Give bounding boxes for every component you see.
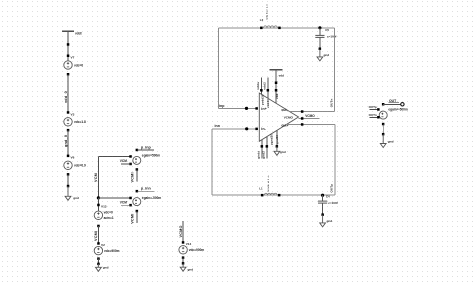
wire net inn <box>212 124 257 129</box>
op-amp internal bottom labels <box>270 134 280 145</box>
wire loop left edge inner <box>211 129 213 195</box>
pin of V3 bottom <box>67 129 70 132</box>
op-amp pin label in+ <box>261 107 266 111</box>
ground op-amp <box>274 146 286 155</box>
pin of V2 bottom <box>97 257 100 260</box>
svg-text:V2: V2 <box>101 243 105 247</box>
wire loop right edge bottom net OUTp <box>330 125 335 196</box>
pin E1 ctrl- <box>129 163 132 166</box>
svg-text:VCMI: VCMI <box>94 231 98 241</box>
svg-text:vdd: vdd <box>275 93 279 99</box>
junction <box>67 185 70 188</box>
wire <box>67 174 69 186</box>
wire net VCMO from apex <box>299 114 320 119</box>
voltage source V13 vdc=0 acm=1 <box>94 211 114 220</box>
svg-text:vdd20: vdd20 <box>266 99 270 108</box>
wire net p_inp <box>137 145 154 150</box>
ground <box>180 263 193 271</box>
svg-text:V3: V3 <box>71 112 75 116</box>
svg-text:pgnd20: pgnd20 <box>270 134 274 145</box>
ground <box>317 49 329 61</box>
svg-text:OUT: OUT <box>389 99 397 103</box>
voltage source V3 vdc=1.8 <box>64 118 86 126</box>
svg-text:V13: V13 <box>101 205 107 209</box>
ground <box>65 186 79 200</box>
pin of V14 bottom <box>182 256 185 259</box>
svg-text:gnda: gnda <box>257 151 261 159</box>
capacitor C5 c=100f <box>315 28 336 38</box>
op-amp out- pin square <box>301 110 304 113</box>
svg-text:vdc=1.8: vdc=1.8 <box>74 120 86 124</box>
pin E2 out- bottom <box>136 210 139 213</box>
svg-text:vdd!: vdd! <box>75 32 82 36</box>
op-amp VCM pin square <box>301 117 304 120</box>
svg-text:egain=-500m: egain=-500m <box>388 107 408 111</box>
pin E2 ctrl- <box>129 204 132 207</box>
svg-text:inn: inn <box>215 124 220 128</box>
svg-text:VCMO: VCMO <box>305 114 315 118</box>
svg-text:vdda: vdda <box>256 82 260 90</box>
svg-text:VCMI: VCMI <box>130 214 134 224</box>
wire VCM to E2 <box>98 197 130 199</box>
svg-text:in-: in- <box>261 127 266 131</box>
wire net p_inn <box>137 187 155 192</box>
wire <box>97 198 99 211</box>
voltage source V2 vdc=900m <box>94 246 119 254</box>
pin E2 out+ top <box>136 190 139 193</box>
ground <box>380 134 393 147</box>
op-amp pin label VCM <box>284 116 294 120</box>
svg-text:gnd: gnd <box>280 150 286 154</box>
svg-text:vdc=900m: vdc=900m <box>104 249 120 253</box>
wire <box>322 195 324 201</box>
svg-text:L2: L2 <box>260 18 264 22</box>
pin E1 out+ top <box>136 149 139 152</box>
junction <box>67 43 70 46</box>
capacitor C4 c=100f <box>318 195 338 205</box>
power supply vdd! symbol <box>62 31 82 35</box>
junction <box>382 133 385 136</box>
op-amp U0 triangle <box>259 93 298 141</box>
wire out+ to loop <box>286 124 335 126</box>
wire net VCM vertical <box>94 156 98 198</box>
op-amp out+ pin square <box>301 123 304 126</box>
pin of V6 <box>67 155 75 160</box>
wire loop right edge top net OUTn <box>329 28 334 112</box>
junction <box>319 48 322 51</box>
wire net OUT <box>383 99 400 104</box>
svg-text:egain=-500m: egain=-500m <box>142 196 162 200</box>
svg-text:p_inn: p_inn <box>141 187 152 191</box>
wire <box>97 259 99 264</box>
pin E0 ctrl- <box>377 116 380 119</box>
wire stub VCM label E2 <box>120 201 131 206</box>
pin E0 top <box>382 103 385 106</box>
svg-text:pvdd20: pvdd20 <box>260 94 264 105</box>
junction <box>275 82 278 85</box>
svg-text:V14: V14 <box>186 242 192 246</box>
wire <box>67 31 69 60</box>
svg-text:C4: C4 <box>326 195 330 199</box>
junction <box>182 262 185 265</box>
svg-text:V7: V7 <box>71 56 75 60</box>
svg-text:V6: V6 <box>71 156 75 160</box>
wire <box>182 258 184 264</box>
pin of V7 <box>67 55 75 60</box>
svg-text:out-: out- <box>281 108 287 112</box>
svg-text:VCMI: VCMI <box>130 172 134 182</box>
svg-text:C5: C5 <box>325 28 329 32</box>
svg-text:vdc=900m: vdc=900m <box>189 248 205 252</box>
inductor L1 l=1e25 <box>259 175 280 197</box>
wire stub OUTp label <box>369 105 378 109</box>
wire net inp <box>219 104 257 108</box>
svg-text:c=100f: c=100f <box>328 201 337 205</box>
pin OUT terminal <box>401 103 404 106</box>
wire stub OUTn label <box>369 113 378 117</box>
junction <box>321 213 324 216</box>
svg-text:acm=1: acm=1 <box>104 216 114 220</box>
node inp junction <box>245 107 248 110</box>
inductor L2 l=1e25 <box>260 3 281 29</box>
node VCM junction <box>97 196 100 199</box>
svg-text:p_inp: p_inp <box>141 145 152 149</box>
wire net VCMO stub <box>179 221 183 243</box>
op-amp pin label out+ <box>281 123 288 127</box>
svg-text:gnd: gnd <box>103 266 109 270</box>
pin of V13 <box>97 204 107 209</box>
svg-text:vdd_0: vdd_0 <box>64 91 68 103</box>
wire net gnd_0 <box>64 130 68 156</box>
pin of V13 bottom <box>97 225 100 228</box>
wire loop left edge outer <box>218 28 220 109</box>
op-amp pin stub gnd2v <box>262 137 268 159</box>
wire <box>322 203 324 215</box>
op-amp pin in- square <box>255 128 258 131</box>
wire out- to loop <box>290 111 335 113</box>
voltage source V6 vdc=0.9 <box>64 161 86 169</box>
pin of V6 bottom <box>67 173 70 176</box>
wire loop bottom edge <box>212 194 335 196</box>
junction <box>97 263 100 266</box>
vcvs E1 egain=500m <box>133 153 161 164</box>
voltage source V14 vdc=900m <box>179 246 204 254</box>
svg-text:inp: inp <box>219 104 225 108</box>
svg-text:gnd: gnd <box>73 196 79 200</box>
wire net vdd_0 <box>64 74 68 112</box>
wire <box>319 37 321 48</box>
wire vdd to op-amp <box>275 70 279 104</box>
op-amp pin stub vdda <box>256 78 262 95</box>
svg-text:vdc=0: vdc=0 <box>104 211 113 215</box>
op-amp pin label in- <box>261 127 266 131</box>
op-amp vdd pin square <box>275 89 278 92</box>
svg-text:VCMO: VCMO <box>284 116 294 120</box>
node C5 junction <box>318 26 321 29</box>
power supply vdd bar <box>269 70 284 78</box>
svg-text:gnd: gnd <box>188 267 194 271</box>
pin E0 ctrl+ <box>377 108 380 111</box>
op-amp pin stub gnda <box>257 140 263 159</box>
svg-text:vdc=0.9: vdc=0.9 <box>74 164 86 168</box>
op-amp gnd pin <box>276 130 279 147</box>
pin E2 ctrl+ <box>129 197 132 200</box>
node inn junction <box>245 127 248 130</box>
svg-text:OUTn: OUTn <box>369 113 377 117</box>
svg-text:VCM: VCM <box>120 201 127 205</box>
svg-text:vdd: vdd <box>279 74 285 78</box>
op-amp pin in+ square <box>255 107 258 110</box>
wire <box>319 28 321 35</box>
vcvs E0 egain=-500m <box>379 107 408 119</box>
svg-text:gnd: gnd <box>324 53 330 57</box>
node C4 junction <box>321 194 324 197</box>
svg-text:gnd2: gnd2 <box>262 151 266 159</box>
wire VCM to E1 <box>98 155 130 157</box>
svg-text:vdc=0: vdc=0 <box>74 63 83 67</box>
voltage source V7 vdc=0 <box>64 61 84 69</box>
ground <box>96 264 109 272</box>
svg-text:egain=500m: egain=500m <box>142 153 161 157</box>
pin of V2 <box>97 242 105 247</box>
vcvs E2 egain=-500m <box>133 196 162 206</box>
wire net VCMI stub <box>130 169 136 182</box>
wire net VCMI stub 2 <box>130 211 136 224</box>
op-amp internal top labels <box>260 94 270 108</box>
op-amp pin label out- <box>281 108 287 112</box>
svg-text:gnd_0: gnd_0 <box>64 135 68 147</box>
pin of V3 <box>67 111 75 116</box>
svg-text:L1: L1 <box>259 186 263 190</box>
wire net VCMI <box>94 226 98 244</box>
wire loop top edge <box>219 27 335 29</box>
pin of V7 bottom <box>67 73 70 76</box>
svg-text:OUTp: OUTp <box>330 184 334 193</box>
svg-text:OUTp: OUTp <box>369 105 377 109</box>
wire <box>382 124 384 134</box>
pin E1 ctrl+ <box>129 155 132 158</box>
ground <box>320 215 333 227</box>
op-amp pin stub vdd2v <box>263 78 270 99</box>
svg-text:gnd: gnd <box>388 140 394 144</box>
pin E1 out- bottom <box>136 168 139 171</box>
svg-text:gnd: gnd <box>327 219 333 223</box>
svg-text:VCM: VCM <box>120 159 127 163</box>
wire stub VCM label E1 <box>120 159 131 164</box>
pin E0 bottom <box>382 123 385 126</box>
svg-text:vdd2: vdd2 <box>263 82 267 90</box>
svg-text:VCMO: VCMO <box>179 225 183 237</box>
svg-text:VCM: VCM <box>94 173 98 182</box>
pin of V14 <box>182 241 192 246</box>
svg-text:OUTn: OUTn <box>329 98 333 107</box>
